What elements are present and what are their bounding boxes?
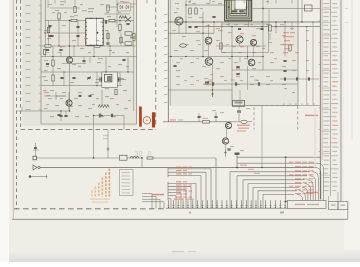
- pin list row 28: [323, 120, 329, 121]
- faint fold line vertical: [314, 108, 316, 168]
- resistor R9: [43, 50, 45, 55]
- U1 pin 4: [85, 34, 86, 35]
- capacitor C3: [82, 59, 85, 61]
- wire rail7 agc: [17, 110, 70, 112]
- dark blob near q7: [205, 82, 209, 84]
- wire antenna A: [37, 157, 142, 159]
- orange cluster base marks: [90, 199, 110, 200]
- connector pin 14: [231, 200, 233, 208]
- junction wire A: [141, 157, 143, 159]
- IF module interior tint: [168, 0, 298, 106]
- connector pin label 2: [280, 212, 284, 214]
- pin list row 17: [323, 73, 328, 74]
- wire v x93.5 long: [93, 116, 95, 159]
- shield box internal parts: [232, 10, 238, 12]
- bus junction: [236, 167, 238, 169]
- resistor R3: [109, 19, 115, 21]
- bus wire r1: [230, 171, 310, 173]
- bus wire l2: [168, 171, 206, 173]
- capacitor C20: [214, 115, 217, 117]
- capacitor C30: [234, 82, 236, 86]
- tuner module inner right line: [133, 0, 135, 111]
- resistor R5: [94, 45, 100, 47]
- antenna terminal J1: [33, 156, 37, 160]
- U1 pin 6: [85, 42, 86, 43]
- bus wire r7: [263, 193, 294, 195]
- extra cap on wire: [110, 114, 112, 118]
- capacitor C31: [257, 82, 259, 86]
- component cluster lower-left: [46, 48, 49, 50]
- diode D3: [241, 120, 247, 123]
- pin list red cluster mid: [305, 115, 318, 116]
- dashed module bottom right: [250, 104, 298, 106]
- wire IF v7: [275, 22, 277, 33]
- wire af rail y122: [163, 121, 232, 123]
- wire af out: [237, 156, 320, 158]
- cluster left of rail y122: [198, 115, 201, 117]
- pin list row 44: [323, 190, 328, 191]
- pin list row 41: [323, 177, 329, 178]
- logo circle dot: [146, 120, 147, 121]
- title box text: [295, 204, 305, 205]
- wire Q2 emitter: [68, 106, 70, 111]
- resistor R10: [147, 157, 153, 159]
- pin list row 29: [323, 125, 329, 126]
- cell box 1: [329, 202, 339, 210]
- U1 pin 2: [85, 26, 86, 27]
- connector pin 6: [192, 200, 194, 208]
- wire Q2 base rail: [56, 95, 66, 97]
- connector strip baseline: [166, 207, 288, 209]
- capacitor C14: [238, 27, 241, 29]
- bus wire y163: [237, 162, 318, 164]
- extra stub top left: [47, 0, 49, 8]
- transistor Q5: [236, 36, 243, 43]
- U1 pin 10: [102, 38, 103, 39]
- wire rail5: [41, 71, 134, 73]
- U1 top pins: [90, 18, 91, 19]
- wire diode box: [107, 6, 118, 8]
- red label near q9: [237, 125, 250, 127]
- bus wire l5: [168, 186, 191, 188]
- wire rail3: [41, 45, 137, 47]
- pin list row 38: [323, 164, 328, 165]
- pin list row 3: [323, 12, 329, 13]
- wire v3: [69, 63, 71, 111]
- capacitor C7: [60, 76, 63, 78]
- pin list row 16: [323, 68, 329, 69]
- bundle drop wire 3: [312, 172, 318, 201]
- switch box S1: [120, 155, 128, 160]
- coil L4 zigzag: [119, 16, 127, 19]
- pin list row 15: [323, 64, 329, 65]
- gray blobs af: [234, 100, 239, 101]
- matching network wire y115.5: [94, 115, 125, 117]
- pin list row 10: [323, 42, 329, 43]
- U1 pin 5: [85, 38, 86, 39]
- capacitor C29: [211, 82, 213, 86]
- left page edge line: [12, 0, 14, 219]
- wire from dashes to module y111 ticks: [21, 107, 23, 111]
- wire v x240 below module: [239, 90, 241, 105]
- bus wire r2: [237, 175, 307, 177]
- pin list row 37: [323, 160, 328, 161]
- svg-text:38: 38: [135, 149, 143, 158]
- connector pin 24: [279, 200, 281, 208]
- connector pin 9: [206, 200, 208, 208]
- wire drop x108 with arrow: [107, 130, 109, 158]
- FL1 lead right: [117, 79, 126, 81]
- left module extra rail y96: [44, 95, 66, 97]
- left module extra rail y63: [62, 63, 86, 65]
- bundle drop wire 7: [302, 187, 308, 200]
- pin list row 7: [323, 29, 329, 30]
- pin list row 18: [323, 77, 328, 78]
- pin list row 42: [323, 181, 329, 182]
- wire IF v8: [284, 22, 286, 57]
- red text af area: [202, 118, 208, 119]
- coil L1: [133, 34, 135, 41]
- tuner module solid box: [41, 0, 137, 124]
- wire IF rail4: [168, 56, 262, 58]
- pin list row 19: [323, 81, 328, 82]
- left module extra rail y8: [50, 7, 80, 9]
- wire v x313: [312, 22, 314, 105]
- red text strip right module: [283, 32, 289, 33]
- wire v8: [119, 72, 121, 86]
- transistor Q2: [66, 100, 72, 106]
- capacitor C2: [76, 34, 79, 36]
- extra stub a: [73, 46, 75, 57]
- capacitor C16: [212, 15, 215, 17]
- connector pin 21: [265, 200, 267, 208]
- U1 pin 13: [102, 26, 103, 27]
- dashed drop x254: [253, 107, 255, 130]
- IF extra stubs: [221, 22, 223, 28]
- pin list row 6: [323, 25, 328, 26]
- IF module left tick labels: [164, 14, 167, 15]
- connector pin 8: [202, 200, 204, 208]
- diode D2: [180, 44, 187, 47]
- transistor Q3: [175, 17, 183, 25]
- capacitor C25: [79, 94, 82, 96]
- orange annotation cluster: [91, 191, 93, 194]
- resistor R2: [71, 19, 77, 21]
- wire v5: [77, 21, 79, 47]
- top edge blobs: [60, 1, 64, 2]
- wire v x269: [268, 9, 270, 27]
- bus wire l8: [168, 195, 176, 197]
- inner dashed box right: [155, 0, 157, 126]
- wire A continue: [153, 157, 216, 159]
- bus wire l6: [168, 189, 186, 191]
- resistor R7: [52, 75, 54, 81]
- capacitor C32: [106, 42, 109, 44]
- IF module red label blobs: [218, 30, 223, 31]
- extra stub d: [116, 21, 118, 28]
- pin list row 1: [323, 3, 329, 4]
- resistor R21: [120, 37, 122, 43]
- right edge vertical line: [340, 0, 342, 202]
- resistor R17: [74, 7, 76, 13]
- below-module light band: [168, 106, 298, 124]
- rail y84 labels: [208, 80, 212, 81]
- resistor R15: [289, 45, 291, 51]
- wire IF v1: [185, 0, 187, 33]
- mid fan red labels: [240, 165, 247, 166]
- wire A drop at 216: [215, 158, 217, 208]
- svg-text:8: 8: [148, 149, 152, 158]
- left margin strip: [0, 0, 9, 262]
- transistor Q4: [205, 37, 212, 44]
- connector pin 19: [255, 200, 257, 208]
- bottom-right frame vertical: [347, 202, 349, 220]
- pin list row 35: [323, 151, 329, 152]
- pin list row 40: [323, 173, 328, 174]
- connector pin 3: [177, 200, 179, 208]
- faint right margin marks: [345, 8, 348, 9]
- wire stub v2: [69, 21, 71, 57]
- coil L3 lead: [101, 90, 103, 105]
- right page margin: [344, 0, 360, 253]
- resistor R13: [220, 43, 222, 49]
- dark blob gap: [130, 37, 135, 39]
- faint bottom text: [172, 251, 184, 252]
- wire v10: [127, 57, 129, 72]
- wire IF v11 down: [212, 65, 214, 97]
- pin list row 31: [323, 134, 328, 135]
- bottom shadow band: [0, 0, 1, 1]
- inner dashed box bottom: [21, 129, 156, 131]
- bundle drop wire 1: [318, 163, 324, 200]
- U1 bottom pins: [90, 45, 91, 46]
- IF module left edge double line: [167, 0, 169, 122]
- pin list row 5: [323, 20, 328, 21]
- inter-module light band: [138, 0, 167, 128]
- connector pin 25: [284, 200, 286, 208]
- connector pin 5: [187, 200, 189, 208]
- capacitor C28: [104, 20, 106, 24]
- capacitor C18 right col: [283, 69, 286, 71]
- bundle drop wire 5: [307, 180, 313, 201]
- capacitor C27: [98, 114, 100, 118]
- connector pin 1: [168, 200, 170, 208]
- transistor Q6: [250, 39, 256, 45]
- caps row y79: [283, 77, 285, 80]
- pin list row 9: [323, 38, 329, 39]
- wire v x121: [120, 33, 122, 46]
- IC U1 IF amplifier: [86, 18, 103, 45]
- junction dots left module: [69, 20, 70, 21]
- diode box D4 D5: [118, 3, 131, 11]
- extra stub b: [89, 57, 91, 63]
- coil L2: [130, 156, 139, 158]
- faint right margin line: [351, 0, 353, 140]
- red text top-center: [123, 2, 129, 3]
- resistor R11: [189, 8, 191, 14]
- capacitor C6: [64, 114, 67, 116]
- wire IF v5 shield leads: [228, 21, 230, 27]
- capacitor C12: [194, 25, 197, 27]
- connector pin label 1: [189, 212, 191, 214]
- wire v x117: [116, 0, 118, 22]
- wire IF top right: [252, 8, 321, 10]
- resistor R19: [115, 89, 117, 95]
- U1 pin 11: [102, 34, 103, 35]
- transistor Q7: [205, 58, 213, 66]
- wire IF v3: [213, 22, 215, 33]
- pin list row 25: [323, 107, 328, 108]
- wire IF rail top: [168, 21, 320, 23]
- left module extra rail y14: [104, 13, 130, 15]
- bus wire l7: [168, 192, 181, 194]
- capacitor C22: [48, 24, 51, 26]
- capacitor C8: [72, 76, 75, 78]
- transistor Q1: [66, 57, 72, 63]
- wire drop x93 junction: [93, 157, 95, 159]
- IF module extra rail y46: [216, 45, 266, 47]
- wire antenna B: [40, 167, 315, 169]
- bundle drop wire 4: [310, 176, 316, 201]
- resistor R1: [58, 13, 60, 19]
- capacitor C23: [48, 34, 51, 36]
- wire rail y84: [203, 83, 298, 85]
- junction dots IF: [185, 4, 186, 5]
- connector pin 23: [274, 200, 276, 208]
- shield box interior white: [235, 0, 246, 9]
- capacitor C15: [260, 27, 263, 29]
- pin list row 33: [323, 142, 328, 143]
- extra dots: [73, 45, 74, 46]
- varicap D1: [125, 17, 131, 22]
- pin list row 24: [323, 103, 328, 104]
- gray text at terminal: [33, 150, 39, 151]
- wire top rail: [45, 20, 134, 22]
- connector pin 2: [172, 200, 174, 208]
- transistor Q9: [225, 122, 231, 128]
- bus wire l3: [168, 175, 201, 177]
- coil L3 zigzag: [98, 105, 109, 108]
- U1 pin 12: [102, 30, 103, 31]
- connector pin 12: [221, 200, 223, 208]
- capacitor C5: [59, 114, 62, 116]
- outer dashed boundary left: [16, 0, 18, 209]
- connector pin 18: [250, 200, 252, 208]
- pin list row 21: [323, 90, 329, 91]
- left column parts: [47, 27, 49, 33]
- shield box SH1 nested frames: [225, 0, 252, 21]
- top edge stubs: [54, 0, 56, 4]
- resistor R8: [119, 25, 121, 31]
- pin list row 11: [323, 47, 328, 48]
- resistor R6: [52, 60, 54, 66]
- bus wire r4: [248, 183, 302, 185]
- resistor R16: [203, 121, 210, 124]
- wire v x108b: [107, 30, 109, 46]
- extra stub e: [63, 72, 65, 86]
- resistor R18: [107, 5, 109, 11]
- resistor R12: [195, 8, 197, 14]
- pin list row 12: [323, 51, 328, 52]
- ceramic filter FL1: [102, 72, 118, 87]
- wire v x124 down: [123, 116, 125, 130]
- pin list row 34: [323, 147, 329, 148]
- capacitor C24: [122, 58, 125, 60]
- oscillator sub-module box: [222, 24, 269, 53]
- wire IF v10: [247, 46, 249, 60]
- bus wire r6: [258, 190, 297, 192]
- wire IF rail3: [168, 32, 214, 34]
- transistor Q10: [222, 138, 228, 144]
- pin list column line outer: [330, 0, 332, 196]
- connector pin 13: [226, 200, 228, 208]
- U1 internal dot: [96, 32, 98, 34]
- capacitor C4: [59, 48, 62, 50]
- transistor Q8: [248, 59, 255, 66]
- connector pin 7: [197, 200, 199, 208]
- extra stub f: [96, 72, 98, 86]
- FL1 lead left: [96, 79, 102, 81]
- resistor R14: [269, 25, 271, 31]
- wire IF v4: [224, 21, 226, 22]
- wire A to B drop: [141, 158, 143, 168]
- bundle drop wire 8: [299, 191, 305, 201]
- red label above connector: [152, 194, 164, 196]
- wire stub v1: [58, 13, 60, 46]
- bus wire l1: [168, 168, 211, 170]
- U1 pin 3: [85, 30, 86, 31]
- pin list row 8: [323, 33, 329, 34]
- cell box 2: [338, 202, 348, 210]
- component rects mid gap: [125, 32, 132, 35]
- left bus labels red: [176, 167, 182, 168]
- bundle drop wire 6: [305, 184, 311, 201]
- logo left red bar: [139, 107, 142, 127]
- wire long drop x262: [261, 105, 263, 167]
- more left module stubs: [83, 57, 85, 64]
- dashed module right drop: [297, 106, 299, 130]
- capacitor C21: [58, 113, 61, 115]
- pin list row 32: [323, 138, 328, 139]
- inner dashed box left: [20, 0, 22, 130]
- IF module bottom edge step: [168, 0, 298, 105]
- wire v9: [105, 57, 107, 72]
- pin list row 20: [323, 86, 328, 87]
- capacitor C9: [126, 22, 129, 24]
- wire q9-q10: [226, 129, 228, 139]
- connector pin 15: [236, 200, 238, 208]
- capacitor C17: [283, 59, 286, 61]
- wire af drop: [236, 153, 238, 168]
- wire IF v6: [262, 0, 264, 70]
- tuner module left pin labels: [26, 5, 31, 6]
- pin list row 23: [323, 99, 329, 100]
- pin list row 26: [323, 112, 328, 113]
- pin list row 36: [323, 155, 329, 156]
- wire rail4: [41, 56, 137, 58]
- bundle drop wire 9: [297, 194, 303, 200]
- capacitor C11: [188, 25, 191, 27]
- alignment table box: [120, 170, 134, 196]
- capacitor C10: [34, 146, 37, 148]
- line y105 ticks: [282, 104, 320, 106]
- terminal stub x285.7: [285, 157, 287, 200]
- connector pin 10: [211, 200, 213, 208]
- left module label blobs: [88, 8, 94, 9]
- pin list column line inner double: [319, 0, 321, 199]
- bus wires right labels red: [295, 162, 301, 163]
- connector pin 4: [182, 200, 184, 208]
